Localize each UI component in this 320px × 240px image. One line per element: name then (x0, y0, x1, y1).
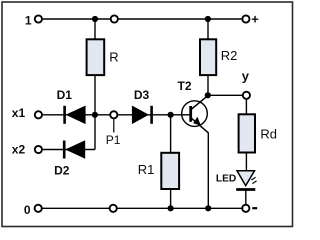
svg-text:D1: D1 (57, 88, 73, 102)
terminal bottom middle (110, 205, 117, 212)
junction emitter bottom (205, 205, 211, 211)
wire Rd to LED (245, 153, 247, 172)
wire R to node P1 (94, 75, 96, 115)
junction base/R1 (168, 112, 174, 118)
wire R2 to collector node (207, 75, 209, 95)
junction top left (92, 16, 98, 22)
terminal 0 (24, 203, 42, 217)
terminal y (242, 68, 250, 99)
svg-text:1: 1 (25, 14, 32, 28)
wire mid row x1 to transistor base (43, 114, 190, 116)
wire bottom rail (43, 207, 242, 209)
wire P1 label stub (113, 119, 115, 132)
wire D2 branch up to node (94, 115, 96, 150)
resistor R (87, 39, 119, 75)
terminal plus (242, 12, 259, 27)
wire left vertical top (rail to R) (94, 19, 96, 39)
svg-text:y: y (242, 68, 250, 83)
terminal 1 (25, 14, 42, 28)
resistor R2 (200, 39, 237, 75)
wire x2 row (43, 149, 95, 151)
terminal top middle (111, 15, 118, 22)
diode D1 (57, 88, 86, 124)
svg-text:D3: D3 (134, 88, 150, 102)
junction top right (205, 16, 211, 22)
svg-text:LED: LED (216, 174, 236, 185)
wire right vertical rail to R2 (207, 19, 209, 39)
svg-text:P1: P1 (106, 133, 121, 147)
wire collector node to y terminal (208, 94, 242, 96)
wire R1 branch down (170, 115, 172, 153)
wire emitter to bottom rail (207, 133, 209, 209)
svg-text:R: R (109, 50, 118, 65)
junction collector node (205, 92, 211, 98)
svg-text:T2: T2 (177, 79, 191, 93)
junction R1 bottom (168, 205, 174, 211)
svg-text:+: + (251, 12, 259, 27)
svg-text:R2: R2 (221, 48, 238, 63)
resistor R1 (138, 153, 179, 189)
diode D2 (54, 140, 85, 177)
terminal x1 (12, 106, 42, 120)
svg-text:R1: R1 (138, 162, 155, 177)
terminal x2 (12, 143, 42, 157)
wire LED to minus terminal (245, 190, 247, 204)
svg-text:Rd: Rd (260, 126, 277, 141)
svg-text:D2: D2 (54, 164, 70, 178)
junction node P1 (92, 112, 98, 118)
svg-text:x1: x1 (12, 106, 26, 120)
node P1 open circle (106, 111, 121, 147)
svg-text:x2: x2 (12, 143, 26, 157)
LED (216, 171, 257, 190)
wire top rail (43, 18, 242, 20)
wire R1 to bottom rail (170, 189, 172, 208)
terminal minus (242, 205, 257, 212)
diode D3 (132, 88, 152, 124)
resistor Rd (239, 114, 277, 152)
transistor T2 (177, 79, 208, 133)
svg-text:0: 0 (24, 203, 31, 217)
wire y terminal down to Rd (245, 99, 247, 114)
